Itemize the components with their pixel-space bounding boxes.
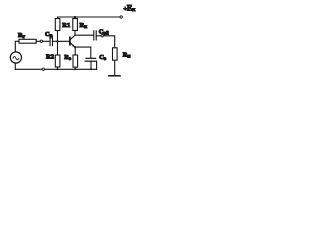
wire Rk bottom to collector: [74, 31, 76, 36]
svg-text:Cэ: Cэ: [99, 54, 106, 62]
wire output terminal to Rn: [103, 36, 114, 48]
wire rail to Rk top: [74, 17, 76, 19]
wire base node to R2 top: [57, 41, 59, 55]
node Rk top junction: [74, 16, 76, 18]
node Ce bottom junction: [90, 68, 92, 70]
capacitor Ce bottom plate: [85, 60, 96, 62]
bottom rail: [15, 68, 96, 70]
wire Cp2 to output terminal: [96, 35, 101, 37]
svg-text:R2: R2: [46, 54, 54, 61]
collector node corner: [75, 34, 93, 36]
input terminal bottom (open circle): [42, 68, 44, 70]
node Re bottom junction: [74, 68, 76, 70]
wire R1 top to rail: [57, 17, 59, 19]
svg-text:Rн: Rн: [123, 52, 131, 60]
top rail +Ek: [58, 16, 121, 18]
node base junction: [56, 40, 58, 42]
capacitor Cp2: [93, 31, 95, 40]
transistor emitter line with arrow: [70, 43, 74, 47]
input terminal top (open circle): [40, 40, 42, 42]
svg-text:+Eк: +Eк: [124, 4, 137, 14]
output terminal (open circle): [101, 35, 103, 37]
svg-text:R1: R1: [62, 22, 70, 29]
wire R2 bottom to rail: [57, 67, 59, 69]
wire rail end jog up to Ce bottom plate: [96, 61, 98, 69]
wire Re bottom to rail: [74, 67, 76, 69]
ground bar under Rn: [109, 75, 120, 77]
wire Rn bottom to ground: [114, 60, 116, 75]
svg-text:Rэ: Rэ: [64, 54, 71, 62]
resistor R1: [55, 19, 60, 31]
wire emitter node down to Re: [74, 47, 76, 55]
wire Cp to base: [53, 40, 70, 42]
capacitor Ce top plate: [86, 57, 96, 59]
wire emitter to Re and Ce: [75, 46, 91, 48]
emitter node: [74, 46, 76, 48]
wire Rg to input terminal: [36, 40, 40, 42]
transistor collector line: [70, 35, 75, 39]
svg-text:Cр: Cр: [45, 31, 53, 39]
transistor VT1 base bar: [69, 37, 71, 44]
svg-text:Rг: Rг: [18, 32, 26, 40]
generator G1 (sine source circle): [10, 52, 21, 63]
svg-text:Cр2: Cр2: [99, 28, 109, 36]
resistor Re: [73, 55, 78, 67]
resistor Rg: [19, 39, 36, 43]
wire Ce top lead: [90, 47, 92, 58]
node R2 bottom junction: [57, 68, 59, 70]
resistor R2: [55, 55, 60, 67]
resistor Rn: [113, 48, 118, 60]
wire generator bottom to rail: [14, 63, 16, 69]
wire R1 bottom to base node: [57, 31, 59, 42]
svg-text:Rк: Rк: [80, 22, 88, 30]
resistor Rk: [73, 19, 78, 31]
wire input terminal to Cp: [43, 40, 50, 42]
terminal +Ek (open circle): [120, 16, 122, 18]
wire Ce bottom lead to rail: [90, 61, 92, 69]
wire generator top to Rg: [15, 41, 19, 52]
capacitor Cp: [49, 37, 51, 46]
